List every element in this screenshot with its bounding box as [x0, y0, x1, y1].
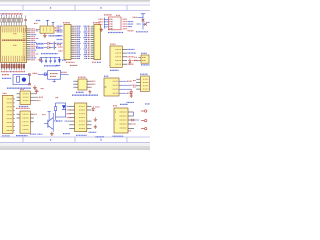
ground GND10: [94, 117, 97, 121]
connector J8: [113, 106, 128, 133]
J1 pins with net labels: [57, 26, 81, 58]
ground GND5: [88, 90, 91, 94]
diode D3 with net label: [36, 42, 54, 44]
U3 caption: [110, 69, 119, 71]
U3 pin net labels: [128, 49, 139, 64]
regulator U2: [36, 26, 61, 33]
Q1 caption: [136, 31, 148, 33]
U4 right pins and wires: [119, 81, 137, 93]
IC U1 microcontroller: [1, 26, 27, 63]
test pad TP1: [141, 110, 147, 112]
diode D5: [129, 59, 132, 65]
test pad TP2: [141, 119, 147, 121]
connector J5 10-pin header: [2, 93, 14, 133]
crystal Y1 oscillator circuit: [2, 74, 30, 85]
U7 caption: [72, 92, 98, 95]
ground GND2: [38, 57, 41, 61]
J2 bottom label: [92, 61, 101, 63]
IC U4: [104, 76, 119, 96]
connector J1 20-pin header: [63, 23, 71, 60]
transistor Q2 circuit: [42, 112, 58, 132]
U6 captions: [63, 132, 104, 137]
diode D7: [92, 106, 100, 111]
diode D6: [130, 89, 133, 94]
net label NB: [49, 35, 61, 37]
diode D8: [131, 119, 139, 121]
U4 caption: [120, 103, 128, 105]
LED indicator D1 circuit: [54, 98, 70, 120]
ground GND6: [130, 94, 133, 98]
J5 caption: [2, 135, 10, 137]
ground GND1: [43, 33, 47, 37]
resistor array R1-R9: [1, 15, 23, 25]
ground GND7: [35, 89, 44, 94]
test pad TP3: [141, 127, 147, 129]
ground GND4: [100, 28, 103, 32]
J6 caption: [19, 106, 29, 108]
connector J2 20-pin header: [93, 23, 101, 60]
diode D4 with net label: [36, 46, 54, 48]
capacitor C6: [24, 15, 27, 25]
U1 bottom pins with series resistors R10-R19: [1, 63, 25, 72]
U1 right-side pins with labels: [13, 29, 38, 60]
U5 bottom caption: [108, 32, 124, 34]
J3 caption: [141, 64, 150, 66]
J2 pins with net labels: [84, 26, 94, 58]
transistor Q1 driver circuit: [133, 14, 150, 30]
power flag 3V3: [56, 59, 78, 65]
ground GND8: [50, 132, 54, 136]
caption decoupling caps: [44, 65, 59, 67]
Q2 net labels: [30, 133, 43, 135]
J1 bottom label: [66, 61, 75, 63]
power flag VCC group: [34, 20, 54, 25]
module U5: [104, 15, 127, 30]
J8 captions: [113, 102, 151, 136]
IC U6 transceiver: [65, 103, 92, 132]
net label above J7: [16, 107, 30, 109]
IC U3: [110, 44, 127, 67]
connector J6: [17, 89, 43, 104]
net labels right of U5: [128, 22, 134, 31]
caption power input: [41, 53, 58, 55]
J8 right pins and wires: [128, 112, 136, 131]
IC U7 EEPROM: [73, 77, 95, 90]
ground GND3: [33, 85, 37, 89]
connector J3: [134, 53, 149, 63]
U5 left wires and labels: [98, 17, 108, 28]
ground GND11: [94, 125, 97, 129]
crystal Y2 with load circuit: [33, 71, 69, 82]
J7 caption: [16, 135, 28, 137]
connector J4: [133, 74, 149, 91]
capacitor bank C1-C5: [40, 57, 60, 63]
net labels above R array: [1, 13, 23, 15]
caption crystal circuit: [7, 87, 31, 89]
LED caption: [56, 120, 63, 122]
connector J7: [17, 111, 38, 133]
connector P1 2-pin: [54, 42, 61, 50]
